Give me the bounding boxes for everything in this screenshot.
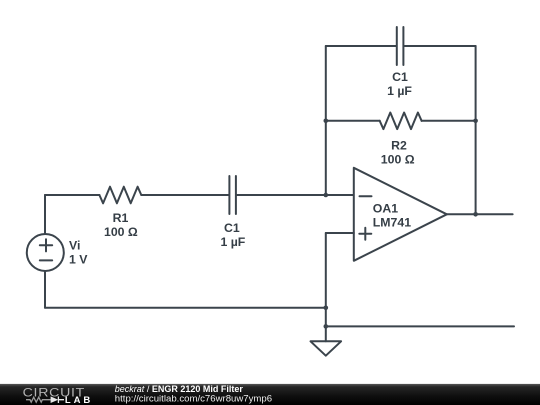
wire xyxy=(475,46,477,214)
ground xyxy=(311,326,342,355)
svg-text:LAB: LAB xyxy=(65,395,91,405)
wire xyxy=(326,45,396,47)
node (output) xyxy=(473,212,478,217)
svg-text:LM741: LM741 xyxy=(373,215,411,229)
wire xyxy=(45,194,99,196)
svg-text:R2: R2 xyxy=(391,139,407,153)
svg-text:Vi: Vi xyxy=(69,239,80,253)
wire xyxy=(325,233,327,326)
footer bar xyxy=(0,384,540,405)
svg-text:100 Ω: 100 Ω xyxy=(381,153,415,167)
wire xyxy=(44,271,46,308)
voltage source Vi xyxy=(27,234,64,271)
node (junction at C1/op-amp input) xyxy=(324,193,329,198)
node (feedback right R2) xyxy=(473,119,478,124)
wire xyxy=(404,45,475,47)
node (ground row) xyxy=(324,324,329,329)
svg-text:C1: C1 xyxy=(392,70,408,84)
svg-text:1 µF: 1 µF xyxy=(387,84,412,98)
svg-text:R1: R1 xyxy=(113,211,129,225)
svg-text:100 Ω: 100 Ω xyxy=(104,225,138,239)
svg-text:OA1: OA1 xyxy=(373,202,398,216)
svg-text:1 V: 1 V xyxy=(69,252,88,266)
wire xyxy=(237,194,354,196)
wire xyxy=(326,232,354,234)
wire xyxy=(447,213,513,215)
svg-text:1 µF: 1 µF xyxy=(220,235,245,249)
logo CIRCUIT text xyxy=(23,386,85,399)
capacitor C1 (feedback) xyxy=(397,27,404,65)
svg-text:http://circuitlab.com/c76wr8uw: http://circuitlab.com/c76wr8uw7ymp6 xyxy=(115,393,272,404)
wire xyxy=(422,120,476,122)
svg-text:C1: C1 xyxy=(224,221,240,235)
resistor R2 xyxy=(380,113,422,130)
wire xyxy=(325,46,327,195)
node (bottom rail) xyxy=(324,306,329,311)
wire xyxy=(141,194,228,196)
wire xyxy=(45,307,326,309)
wire xyxy=(44,195,46,234)
logo diode xyxy=(51,396,64,403)
capacitor C1 (series) xyxy=(229,176,236,214)
resistor R1 xyxy=(99,187,141,204)
logo resistor squiggle xyxy=(26,397,51,402)
wire xyxy=(326,120,380,122)
wire xyxy=(326,325,514,327)
op-amp OA1 xyxy=(354,168,447,261)
node (feedback left R2) xyxy=(324,119,329,124)
